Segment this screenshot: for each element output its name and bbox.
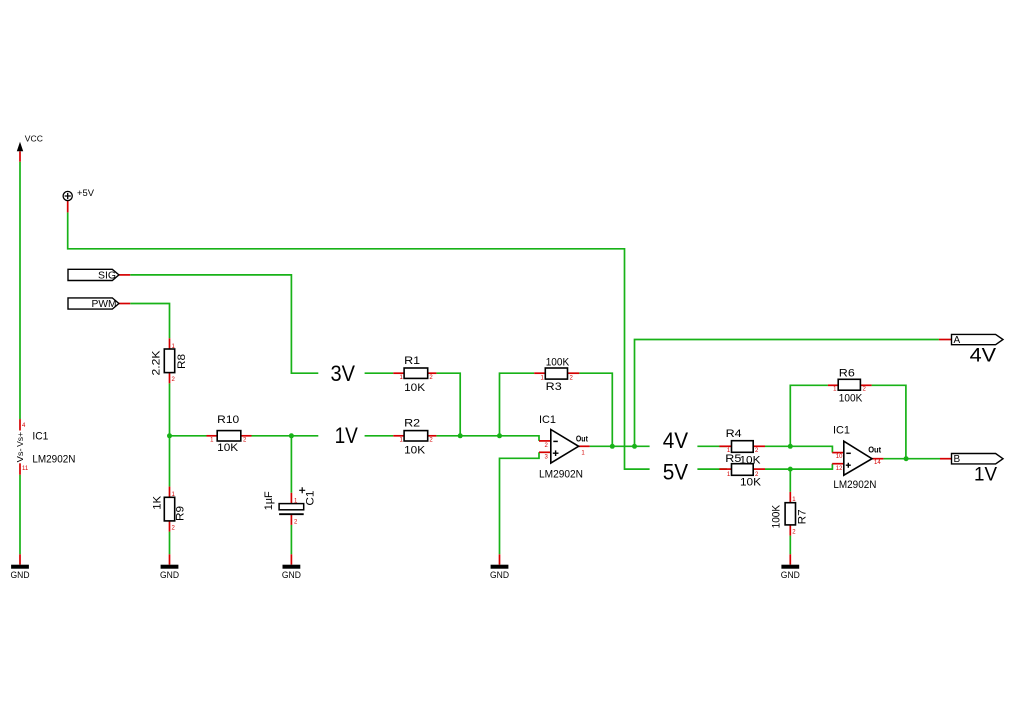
connector SIG [68, 269, 119, 281]
svg-text:4V: 4V [970, 346, 997, 367]
junction R3 feedback tap [497, 433, 502, 438]
svg-text:100K: 100K [771, 504, 783, 528]
wire R7 bottom to GND [789, 536, 791, 555]
pin stub R3 pin2 [568, 372, 580, 374]
svg-text:SIG: SIG [98, 271, 116, 282]
wire R6 feedback left leg [790, 385, 828, 446]
svg-text:R6: R6 [839, 367, 855, 379]
pin stub R1 pin2 [428, 372, 437, 374]
svg-text:PWM: PWM [92, 299, 117, 310]
svg-text:10K: 10K [740, 476, 762, 488]
wire op1 noninverting to GND run [500, 452, 540, 554]
svg-text:5V: 5V [663, 459, 689, 484]
wire R3 feedback left leg [500, 373, 535, 436]
svg-text:B: B [954, 454, 961, 465]
pin stub R6 pin2 [860, 384, 871, 386]
svg-text:14: 14 [874, 460, 881, 466]
svg-text:IC1: IC1 [539, 414, 556, 426]
svg-text:R7: R7 [796, 509, 808, 524]
wire R5 to junction and into op2 +input jog [765, 464, 832, 469]
svg-text:+5V: +5V [77, 188, 94, 198]
pin stub IC1 Vs- pin11 [19, 463, 21, 474]
supply +5V symbol [63, 188, 94, 200]
wire R1 right down to 1V node [436, 373, 460, 436]
svg-text:100K: 100K [546, 357, 570, 369]
wire +5V net: down from supply, across top, down to 5V row [68, 212, 650, 469]
svg-text:VCC: VCC [25, 134, 43, 143]
pin stub R9 pin1 [169, 487, 171, 498]
pin stub PWM connector [119, 303, 130, 305]
svg-text:1K: 1K [151, 495, 163, 510]
pin stub R10 pin1 [207, 435, 218, 437]
wire A net: up from output row, across to connector A [635, 340, 939, 447]
pin stub R5 pin1 [719, 468, 731, 470]
supply VCC symbol [17, 134, 43, 151]
ground GND below op1 input [490, 565, 509, 580]
resistor R4 10K horizontal [726, 428, 762, 467]
pin stub R8 pin1 [169, 338, 171, 349]
pin stub SIG connector [119, 274, 130, 276]
resistor R8 2.2K vertical [150, 344, 188, 383]
wire VCC rail vertical lower [19, 475, 21, 555]
svg-text:10K: 10K [404, 445, 426, 457]
pin stub C1 pin1 [290, 493, 292, 504]
pin stub op1 output pin1 [579, 445, 590, 447]
junction at R8/R10 1V node [167, 433, 172, 438]
svg-text:12: 12 [836, 466, 843, 472]
pin stub R5 pin2 [753, 468, 765, 470]
svg-text:R2: R2 [404, 418, 420, 430]
junction op1 output R3 [610, 444, 615, 449]
ground GND below C1 [282, 565, 301, 580]
resistor R1 10K horizontal [399, 355, 433, 394]
pin stub op1 noninverting pin3 [539, 451, 551, 453]
svg-text:10K: 10K [404, 382, 426, 394]
svg-text:Out: Out [576, 434, 588, 443]
svg-text:R4: R4 [726, 428, 742, 440]
pin stub R3 pin1 [534, 372, 545, 374]
svg-text:R9: R9 [175, 506, 187, 521]
svg-text:11: 11 [22, 466, 29, 472]
svg-text:1V: 1V [974, 465, 997, 486]
pin stub op2 inverting pin10 [832, 452, 844, 454]
svg-text:10: 10 [836, 454, 843, 460]
wire SIG net to 3V label [130, 275, 318, 373]
wire R10 to C1 node to 1V label [252, 435, 319, 437]
pin stub +5V supply [67, 201, 69, 213]
svg-text:4V: 4V [663, 428, 689, 453]
svg-text:IC1: IC1 [32, 431, 48, 443]
wire R7 top from 5V row junction [789, 469, 791, 492]
connector B [952, 454, 1004, 465]
pin stub op1 GND [499, 554, 501, 564]
svg-text:3V: 3V [331, 361, 356, 386]
pin stub left-rail GND [19, 554, 21, 564]
junction R4-R6 node [788, 444, 793, 449]
svg-text:A: A [954, 335, 961, 346]
pin stub R4 pin1 [719, 445, 731, 447]
ground GND below R7 [781, 565, 800, 580]
pin stub R7 GND [789, 554, 791, 564]
svg-text:LM2902N: LM2902N [32, 453, 75, 465]
wire R2 to op1 inverting input jog [436, 436, 539, 441]
pin stub R9 GND [169, 554, 171, 564]
junction R1-R2 summing node [458, 433, 463, 438]
pin stub R1 pin1 [393, 372, 404, 374]
pin stub op2 noninverting pin12 [832, 463, 844, 465]
svg-text:Out: Out [868, 445, 881, 454]
PIN-STUBS-RED [20, 151, 952, 564]
pin stub C1 pin2 [290, 514, 292, 525]
resistor R5 10K horizontal [725, 453, 761, 488]
op-amp U1b IC1 LM2902N [833, 425, 882, 492]
svg-text:Vs+: Vs+ [16, 432, 25, 447]
wire R9 bottom to GND [169, 532, 171, 555]
pin stub R2 pin2 [428, 435, 437, 437]
pin stub R4 pin2 [753, 445, 765, 447]
pin stub IC1 Vs+ pin4 [19, 419, 21, 430]
pin stub R9 pin2 [169, 521, 171, 532]
wire PWM net to R8 [130, 304, 169, 339]
svg-text:R3: R3 [546, 381, 562, 393]
ground GND below R9 [160, 565, 179, 580]
svg-text:R1: R1 [404, 355, 420, 367]
resistor R2 10K horizontal [399, 418, 433, 457]
junction R5-R7 node [788, 467, 793, 472]
svg-text:R10: R10 [217, 414, 239, 426]
junction op2 output R6 [904, 456, 909, 461]
wire 3V label to R1 [365, 372, 394, 374]
wire R4 to junction and into op2 -input jog [765, 446, 832, 452]
svg-text:LM2902N: LM2902N [833, 479, 876, 491]
pin stub op2 output pin14 [872, 458, 883, 460]
svg-text:IC1: IC1 [833, 425, 850, 437]
svg-text:R8: R8 [176, 354, 188, 369]
resistor R3 100K horizontal [541, 357, 574, 393]
wire op2 output to connector B [883, 458, 940, 460]
pin stub C1 GND [290, 554, 292, 564]
WIRES-GREEN [20, 162, 940, 555]
connector PWM [68, 298, 119, 310]
wire C1 bottom to GND [290, 525, 292, 554]
svg-text:1V: 1V [335, 423, 359, 448]
svg-text:Vs-: Vs- [16, 448, 25, 462]
pin stub R7 pin2 [789, 525, 791, 536]
wire C1 node down to C1 [290, 436, 292, 493]
wire 5V row right of label to R5 [697, 468, 727, 470]
pin stub R10 pin2 [241, 435, 252, 437]
svg-text:1µF: 1µF [263, 491, 275, 510]
svg-text:10K: 10K [217, 442, 239, 454]
pin stub connector B [940, 458, 952, 460]
junction op1 output A-net [632, 444, 637, 449]
pin stub R2 pin1 [393, 435, 404, 437]
resistor R10 10K horizontal [210, 414, 247, 454]
resistor R9 1K vertical [151, 492, 186, 532]
svg-text:100K: 100K [839, 393, 863, 405]
svg-text:LM2902N: LM2902N [539, 469, 583, 481]
capacitor C1 1uF polarized [263, 487, 317, 525]
pin stub R6 pin1 [828, 384, 838, 386]
wire R6 right leg down to op2 output [872, 385, 906, 458]
svg-text:C1: C1 [305, 491, 317, 506]
wire R8 bottom to 1V row and down to R9 [169, 383, 171, 486]
junction at C1 1V node [289, 433, 294, 438]
pin stub R8 pin2 [169, 373, 171, 384]
pin stub R7 pin1 [789, 492, 791, 503]
pin stub VCC arrow [19, 151, 21, 161]
op-amp U1a IC1 LM2902N [539, 414, 588, 481]
resistor R7 100K vertical [771, 497, 809, 535]
ic IC1 power pins on left rail [16, 423, 76, 472]
svg-text:2.2K: 2.2K [150, 350, 162, 376]
resistor R6 100K horizontal [833, 367, 866, 404]
wire 4V label to R4 [697, 445, 727, 447]
wire 1V row: node to R10 [170, 435, 207, 437]
svg-text:R5: R5 [725, 453, 741, 465]
connector A [952, 334, 1004, 346]
wire 1V label to R2 [365, 435, 394, 437]
wire R3 right leg down to output [579, 373, 612, 446]
pin stub connector A [939, 339, 952, 341]
wire VCC rail vertical upper [19, 162, 21, 419]
pin stub op1 inverting pin2 [539, 440, 551, 442]
wire op1 output row to 4V label [590, 445, 650, 447]
ground GND left rail [11, 565, 30, 580]
